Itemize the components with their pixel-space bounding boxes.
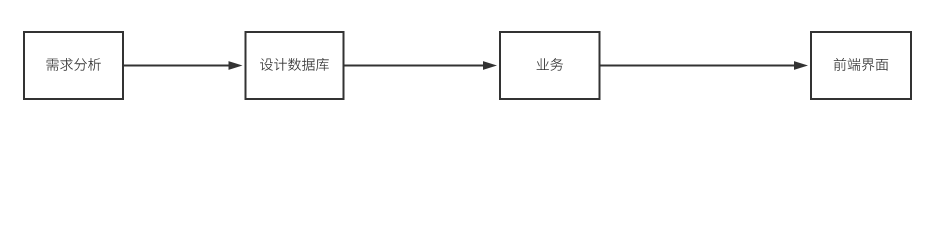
label text 前端界面 [834, 58, 888, 71]
flow box node 1: 需求分析 [24, 32, 123, 99]
flow box node 2: 设计数据库 [246, 32, 344, 99]
label text 设计数据库 [260, 58, 329, 71]
wire arrow connector 2: 设计数据库 to 业务 [345, 61, 498, 70]
wire arrow connector 1: 需求分析 to 设计数据库 [124, 61, 243, 70]
flow box node 4: 前端界面 [811, 32, 911, 99]
flow box node 3: 业务 [500, 32, 600, 99]
wire arrow connector 3: 业务 to 前端界面 [601, 61, 809, 70]
label text 需求分析 [46, 58, 100, 71]
label text 业务 [537, 58, 564, 71]
